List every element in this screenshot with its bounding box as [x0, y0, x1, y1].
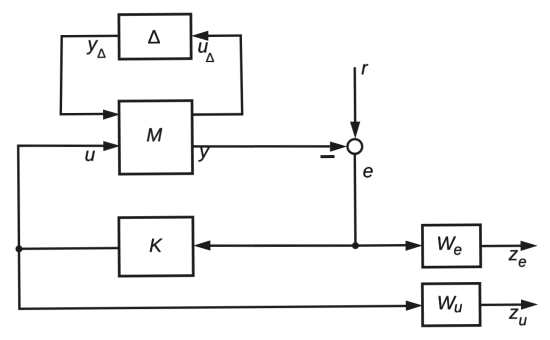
wire r: reference input down into summing junction: [354, 67, 357, 122]
arrowhead ze: [521, 241, 538, 251]
arrowhead e into K: [193, 240, 210, 250]
svg-text:u: u: [85, 145, 96, 166]
wire u branch down to Wu: [19, 246, 407, 309]
svg-text:u: u: [519, 312, 528, 329]
wire yDelta: Delta left output down to M input: [60, 36, 119, 114]
wire e: summing junction down to node: [354, 154, 357, 246]
arrowhead u into M: [103, 141, 120, 151]
svg-text:u: u: [454, 299, 463, 316]
svg-text:K: K: [149, 236, 163, 257]
svg-text:y: y: [197, 141, 210, 162]
svg-text:z: z: [508, 244, 519, 265]
block K (controller): [119, 217, 193, 276]
svg-text:r: r: [361, 58, 368, 79]
wire e to We input: [355, 244, 406, 247]
wire uDelta: M output up to Delta input: [192, 36, 242, 115]
block M (generalized plant): [119, 101, 193, 175]
arrowhead into Wu: [406, 300, 423, 310]
svg-text:z: z: [508, 303, 519, 324]
arrowhead into We: [406, 240, 423, 250]
junction dot e node: [352, 242, 359, 249]
arrowhead zu: [521, 299, 538, 309]
junction dot u node: [15, 245, 22, 252]
minus sign at summing junction: [320, 155, 334, 158]
arrowhead r into summing junction: [350, 122, 360, 139]
wire zu: Wu output: [480, 303, 522, 306]
svg-text:Δ: Δ: [97, 46, 106, 61]
arrowhead yDelta into M: [103, 109, 120, 119]
svg-text:e: e: [518, 253, 526, 270]
svg-text:e: e: [363, 161, 374, 182]
svg-text:e: e: [454, 242, 462, 259]
arrowhead y into summing junction: [330, 141, 347, 151]
wire e to K input: [209, 245, 355, 247]
svg-text:Δ: Δ: [206, 50, 215, 65]
wire ze: We output: [481, 245, 521, 248]
block Delta U_Delta: [119, 14, 191, 59]
block Wu (control weight): [422, 283, 480, 325]
svg-text:M: M: [146, 125, 162, 146]
arrowhead uDelta into Delta: [191, 31, 208, 41]
wire y: M output to summing junction: [192, 145, 330, 147]
wire u: K output up and into M: [18, 145, 118, 249]
summing junction: [347, 139, 362, 154]
svg-text:Δ: Δ: [148, 27, 161, 48]
block We (error weight): [422, 225, 480, 267]
